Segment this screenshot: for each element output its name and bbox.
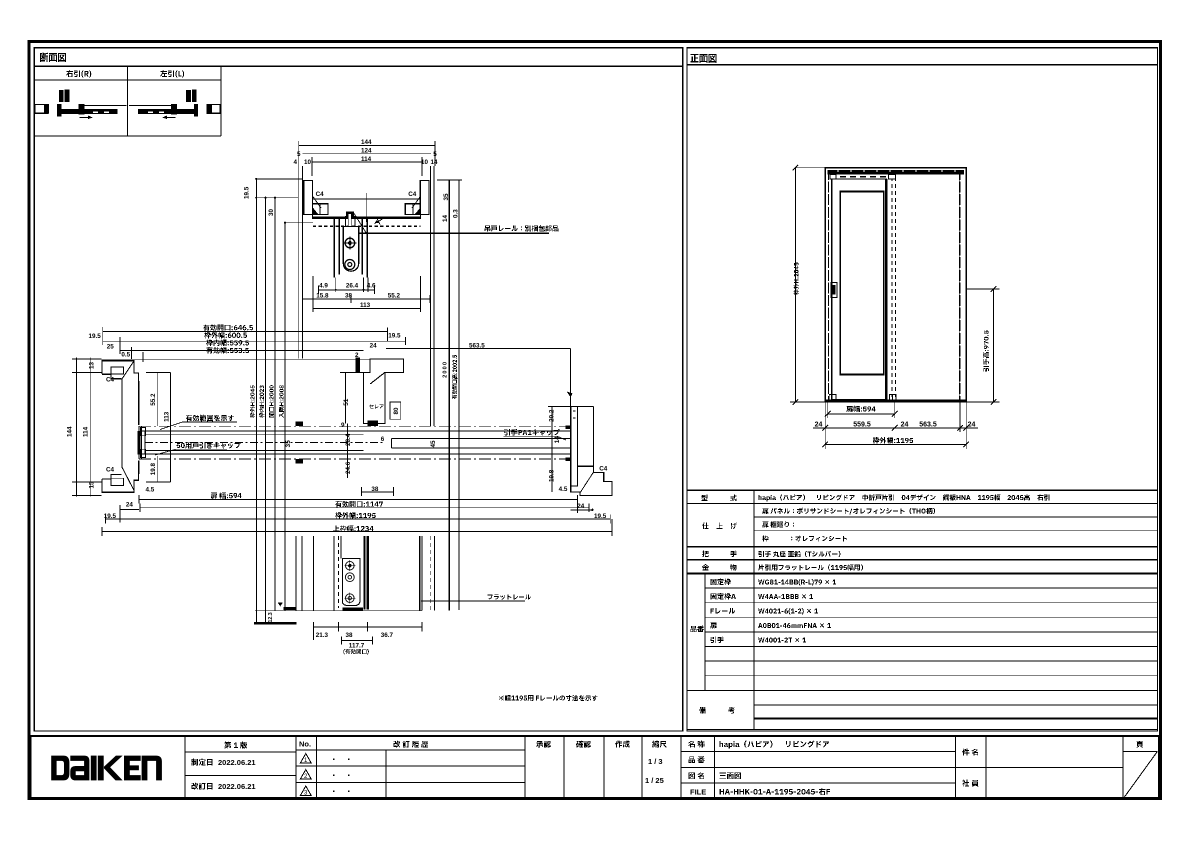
top notches xyxy=(830,175,836,179)
svg-text:C4: C4 xyxy=(599,466,608,473)
svg-text:80: 80 xyxy=(393,407,400,415)
bottom width dims of band xyxy=(102,495,612,536)
bottom extension stubs xyxy=(336,278,368,293)
right stile thick xyxy=(885,179,887,400)
svg-text:5: 5 xyxy=(297,151,301,158)
svg-text:30: 30 xyxy=(268,208,275,216)
断面図 title xyxy=(40,53,66,62)
mini diagram left-pull (right cell) xyxy=(129,90,220,120)
svg-text:15: 15 xyxy=(89,481,96,489)
svg-text:28.4: 28.4 xyxy=(345,433,352,446)
major horizontal lines xyxy=(687,489,1158,491)
svg-text:45: 45 xyxy=(430,440,437,448)
svg-text:4.5: 4.5 xyxy=(559,486,568,493)
svg-text:4.9: 4.9 xyxy=(319,283,328,290)
wall lines left pair xyxy=(298,166,300,359)
left jamb line xyxy=(827,175,829,400)
svg-text:563.5: 563.5 xyxy=(469,343,485,350)
svg-text:36.7: 36.7 xyxy=(381,632,394,639)
head underside plate xyxy=(313,217,421,219)
center piece xyxy=(340,358,404,478)
mini table (右引/左引) xyxy=(34,66,221,136)
right panel frame xyxy=(687,48,1158,731)
svg-text:114: 114 xyxy=(83,426,90,437)
svg-text:C4: C4 xyxy=(316,191,325,198)
leader: tsuri-do rail xyxy=(358,232,549,234)
centerline xyxy=(365,193,367,222)
svg-text:24: 24 xyxy=(901,422,909,429)
bottom dim 1195 xyxy=(825,444,966,446)
svg-text:4.6: 4.6 xyxy=(367,283,376,290)
bottom dim row2 xyxy=(824,402,826,432)
svg-text:113: 113 xyxy=(163,411,170,422)
svg-text:10: 10 xyxy=(421,159,429,166)
svg-text:C4: C4 xyxy=(106,377,115,384)
svg-text:559.5: 559.5 xyxy=(853,422,871,429)
stacked width dims xyxy=(101,327,572,430)
left jamb profile xyxy=(102,361,145,493)
svg-text:24: 24 xyxy=(577,503,585,510)
svg-text:24: 24 xyxy=(126,502,134,509)
svg-text:12.3: 12.3 xyxy=(268,612,274,622)
38 dim under center piece xyxy=(362,487,394,496)
right panel header divider xyxy=(687,64,1158,66)
head profile right (mirror) xyxy=(420,180,429,214)
right side rows xyxy=(681,751,955,753)
svg-text:14: 14 xyxy=(442,214,449,222)
top detail bottom dims xyxy=(303,276,430,312)
right dim pair xyxy=(448,180,450,611)
svg-text:2022.06.21: 2022.06.21 xyxy=(218,782,256,791)
svg-text:14: 14 xyxy=(554,436,561,444)
svg-text:25: 25 xyxy=(107,343,115,350)
bottom dim 594 xyxy=(827,402,829,418)
svg-text:2000: 2000 xyxy=(443,362,449,378)
hidden track dashed xyxy=(830,176,895,178)
bottom dims xyxy=(314,622,423,645)
svg-text:19.5: 19.5 xyxy=(104,513,117,520)
dim 114 xyxy=(312,161,422,163)
leader: flat rail xyxy=(421,600,525,602)
small section-cut mark xyxy=(375,219,383,225)
dim 144 xyxy=(299,144,435,146)
svg-text:19.8: 19.8 xyxy=(150,463,157,476)
svg-text:21.3: 21.3 xyxy=(316,632,329,639)
svg-text:C4: C4 xyxy=(408,191,417,198)
svg-text:51: 51 xyxy=(343,398,350,406)
vertical lines xyxy=(753,490,755,729)
bottom flange (mirror) xyxy=(102,472,139,492)
warning triangles xyxy=(300,754,311,796)
svg-text:55.2: 55.2 xyxy=(150,393,157,406)
DAIKEN logo xyxy=(51,756,162,781)
svg-text:19.5: 19.5 xyxy=(388,333,401,340)
svg-text:C4: C4 xyxy=(106,467,115,474)
svg-text:114: 114 xyxy=(361,156,372,163)
svg-text:15.8: 15.8 xyxy=(316,293,329,300)
svg-text:No.: No. xyxy=(299,740,311,749)
wall lines right pair xyxy=(430,166,432,426)
window xyxy=(840,192,884,375)
leaf outline xyxy=(832,179,887,400)
door stop bead / panel end xyxy=(138,431,141,454)
svg-text:5: 5 xyxy=(433,151,437,158)
svg-text:0.5: 0.5 xyxy=(121,351,130,358)
dim 124 xyxy=(303,153,431,155)
svg-text:19.8: 19.8 xyxy=(549,469,556,482)
svg-text:19.5: 19.5 xyxy=(244,186,251,199)
left side dims 144/114/13/15 xyxy=(72,358,101,497)
svg-text:10: 10 xyxy=(304,159,312,166)
top flange xyxy=(102,361,139,381)
正面図 title xyxy=(690,54,716,63)
minor lines xyxy=(754,516,1158,518)
svg-text:4.5: 4.5 xyxy=(146,486,155,493)
svg-text:124: 124 xyxy=(361,148,372,155)
head profile left xyxy=(304,180,429,292)
svg-text:14: 14 xyxy=(431,159,439,166)
rows: daiken/1st ed block xyxy=(185,751,296,753)
pocket dashed pair xyxy=(891,177,893,397)
head black band xyxy=(828,170,964,175)
right pocket jamb xyxy=(548,406,612,496)
svg-text:24: 24 xyxy=(815,422,823,429)
floor rail black xyxy=(283,607,295,610)
svg-text:0.3: 0.3 xyxy=(452,209,459,218)
svg-text:19.5: 19.5 xyxy=(594,513,607,520)
svg-text:35: 35 xyxy=(443,193,450,201)
svg-text:FILE: FILE xyxy=(690,788,706,797)
svg-text:38: 38 xyxy=(346,632,354,639)
jamb white ticks xyxy=(828,180,960,399)
guide blocks bottom xyxy=(829,394,836,400)
note xyxy=(499,695,598,701)
svg-text:38: 38 xyxy=(345,293,353,300)
No + rireki rows xyxy=(296,749,525,751)
svg-text:24.6: 24.6 xyxy=(345,461,352,474)
svg-text:4: 4 xyxy=(294,159,298,166)
svg-text:19.5: 19.5 xyxy=(89,333,102,340)
bottom thick xyxy=(825,400,966,402)
mini diagram right-pull (left cell) xyxy=(35,90,127,120)
svg-text:24: 24 xyxy=(370,343,378,350)
ticks xyxy=(793,165,997,447)
stem xyxy=(121,379,123,466)
left panel frame xyxy=(34,48,683,731)
hanger body xyxy=(346,212,354,217)
svg-text:26.4: 26.4 xyxy=(346,283,359,290)
svg-text:35: 35 xyxy=(285,440,292,448)
svg-text:117.7: 117.7 xyxy=(349,643,365,650)
svg-text:144: 144 xyxy=(361,139,372,146)
bracket with rollers xyxy=(342,558,360,605)
svg-text:113: 113 xyxy=(360,302,371,309)
right jamb line xyxy=(959,175,961,400)
floor line xyxy=(255,610,422,612)
band leader texts xyxy=(155,422,566,455)
svg-text:24: 24 xyxy=(968,422,976,429)
svg-text:563.5: 563.5 xyxy=(919,422,937,429)
title block outer xyxy=(31,736,1159,799)
svg-text:144: 144 xyxy=(67,426,74,437)
svg-text:20.2: 20.2 xyxy=(549,409,556,422)
dimensions around elevation xyxy=(790,168,1000,449)
left panel header divider xyxy=(34,65,683,67)
svg-text:6: 6 xyxy=(381,436,385,443)
door panel band xyxy=(139,422,571,464)
svg-text:1 / 25: 1 / 25 xyxy=(645,776,664,785)
svg-text:38: 38 xyxy=(371,486,379,493)
svg-text:1 / 3: 1 / 3 xyxy=(648,757,663,766)
svg-text:13: 13 xyxy=(89,361,96,369)
hanger bracket side plates xyxy=(334,217,367,278)
leader diagonal xyxy=(354,214,366,234)
handle xyxy=(831,282,837,297)
svg-text:2022.06.21: 2022.06.21 xyxy=(218,758,256,767)
white tick dashes on head band xyxy=(838,170,955,172)
svg-text:55.2: 55.2 xyxy=(388,293,401,300)
svg-text:9: 9 xyxy=(341,422,345,429)
